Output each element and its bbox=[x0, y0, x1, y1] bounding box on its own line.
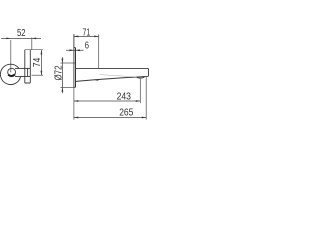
dimension O72 dim line bbox=[61, 57, 63, 93]
faint inner taper line on spout underside bbox=[100, 75, 137, 77]
right view: plate top cap bbox=[74, 47, 76, 49]
dimension 74 bottom arrow bbox=[41, 71, 43, 75]
right view: escutcheon plate front edge bbox=[75, 48, 77, 88]
dimension 243 left arrow bbox=[74, 100, 78, 102]
dimension 6 dim line bbox=[66, 49, 84, 51]
dimension 243 right arrow bbox=[136, 100, 140, 102]
left view: bar end cap bbox=[27, 68, 29, 76]
svg-text:71: 71 bbox=[83, 27, 91, 38]
dimension 71 right arrow bbox=[94, 36, 98, 38]
left view: big circle (escutcheon face) with gap at right bbox=[0, 64, 20, 84]
svg-text:52: 52 bbox=[17, 28, 26, 39]
dimension O72 bottom extension line bbox=[60, 86, 74, 88]
left view: spout bar top line bbox=[15, 67, 30, 69]
dimension 71 dim line bbox=[74, 35, 99, 37]
aerator dome at spout tip underside bbox=[137, 77, 145, 78]
dimension 74 dim line bbox=[40, 50, 42, 75]
dimension 6 right arrow (outside) bbox=[76, 49, 80, 51]
extension line right of 52 bbox=[31, 37, 33, 50]
dimension 265 right extension line bbox=[145, 77, 147, 119]
dimension 74 top arrow bbox=[41, 50, 43, 54]
dimension 6 left arrow (outside) bbox=[70, 49, 74, 51]
right view: spout underside with aerator bump and taper bbox=[76, 76, 149, 81]
svg-text:Ø72: Ø72 bbox=[54, 66, 65, 81]
dimension 265 right arrow bbox=[142, 117, 146, 119]
left view: escutcheon plate rectangle (edge) bbox=[25, 50, 31, 83]
svg-text:74: 74 bbox=[32, 57, 43, 67]
shared left extension line below wall bbox=[73, 87, 75, 119]
dimension 265 dim line bbox=[74, 117, 146, 119]
dimension 74 top extension line bbox=[25, 49, 43, 51]
dimension O72 top extension line bbox=[60, 62, 75, 64]
extension line left of 52 / spout axis centerline bbox=[10, 40, 12, 72]
left view: small circle (spout tube end-on) bbox=[8, 68, 16, 76]
dimension 243 right extension line bbox=[139, 79, 141, 103]
dimension 52 right arrow bbox=[32, 38, 36, 40]
dimension 71 right extension line bbox=[98, 34, 100, 68]
dimension O72 bottom arrow (outside, pointing up) bbox=[62, 87, 64, 91]
small outlet bump on underside near body bbox=[95, 78, 99, 81]
svg-text:6: 6 bbox=[85, 41, 90, 52]
svg-text:265: 265 bbox=[119, 108, 134, 119]
left view: dark aerator arc at bottom of small circle bbox=[8, 74, 15, 76]
dimension 265 left arrow bbox=[74, 117, 78, 119]
right view: spout tip vertical bbox=[148, 69, 150, 77]
right view: wall line bbox=[73, 34, 75, 87]
dimension 52 dim line bbox=[1, 37, 41, 39]
left view: spout bar bottom line bbox=[15, 76, 30, 78]
dimension 74 bottom extension line bbox=[32, 74, 44, 76]
right view: spout top line bbox=[76, 68, 149, 70]
svg-text:243: 243 bbox=[117, 91, 132, 102]
dimension O72 top arrow (outside, pointing down) bbox=[62, 59, 64, 63]
dimension 243 dim line bbox=[74, 100, 140, 102]
right view: plate bottom cap bbox=[74, 86, 76, 88]
dimension 71 left arrow bbox=[74, 36, 78, 38]
dimension 52 left arrow bbox=[6, 38, 10, 40]
